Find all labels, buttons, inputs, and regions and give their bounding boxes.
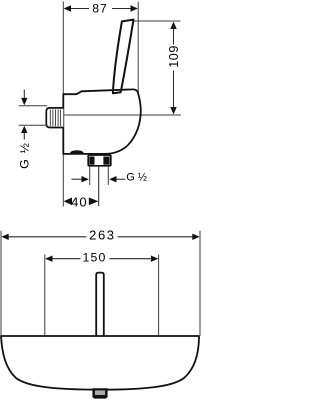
svg-text:109: 109	[167, 45, 181, 68]
dimension line 263	[3, 236, 87, 238]
feature line / extension bottom of 109 dim	[64, 114, 181, 116]
dark plug on body bottom	[70, 150, 84, 153]
arrowhead 263 right	[192, 234, 199, 240]
left G1/2 dim: up arrow	[23, 132, 25, 140]
mixer body outline (side view)	[63, 89, 141, 154]
40 dim	[64, 198, 72, 206]
left G1/2 dim: extension lines	[19, 105, 47, 107]
outlet nut (side view)	[88, 155, 111, 166]
extension line right of 87 dim (body front)	[137, 2, 139, 93]
extension line left of 150 dim	[44, 255, 46, 336]
extension line left of 87 dim (wall face)	[62, 2, 64, 95]
handle stem (front view)	[96, 273, 104, 336]
thread hatch lines	[50, 109, 60, 126]
svg-text:150: 150	[82, 251, 106, 265]
svg-text:40: 40	[71, 194, 87, 209]
outlet centerline	[98, 166, 100, 206]
arrowhead 109 up	[170, 22, 176, 30]
arrowhead 150 left	[45, 256, 52, 262]
bottom G1/2 dim: right arrow	[116, 178, 125, 180]
svg-text:87: 87	[92, 2, 108, 16]
bottom G1/2 dim: left arrow	[72, 178, 83, 180]
svg-text:G ½: G ½	[126, 172, 147, 184]
arrowhead 87 left	[64, 5, 71, 11]
extension line right of 150 dim	[158, 255, 160, 336]
outlet cup inner highlight	[95, 390, 105, 395]
body bowl outline (front view)	[1, 336, 199, 390]
extension line left of 263 dim	[0, 231, 2, 336]
svg-text:G ½: G ½	[17, 142, 31, 169]
dimension line 150	[47, 258, 81, 260]
outlet thread extension lines	[89, 166, 91, 185]
arrowhead 263 left	[1, 234, 8, 240]
outlet cup (front view)	[92, 388, 107, 398]
extension line right of 263 dim	[199, 231, 201, 336]
extension line left continued below body to 40-dim	[62, 154, 64, 207]
arrowhead 109 down	[170, 107, 176, 115]
lever handle (side view)	[113, 20, 134, 94]
dimension line 87	[65, 8, 89, 10]
svg-text:263: 263	[89, 228, 116, 243]
left G1/2 dim: down arrow	[23, 90, 25, 100]
wall thread connector G1/2 (hatched)	[46, 108, 63, 128]
arrowhead 87 right	[131, 5, 138, 11]
arrowhead 150 right	[151, 256, 158, 262]
extension line top of 109 dim (handle top)	[131, 20, 181, 22]
dimension line 109	[173, 24, 175, 45]
